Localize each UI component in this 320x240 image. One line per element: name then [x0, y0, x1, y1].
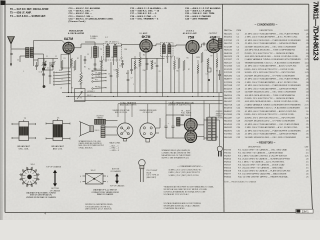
svg-text:OF SOCKET: OF SOCKET: [143, 112, 154, 114]
tone capacitor C6: [110, 76, 113, 77]
svg-text:R3: R3: [80, 97, 82, 99]
svg-text:C16: C16: [120, 57, 123, 59]
svg-text:C19 — OSC. TRIMMER — 5: C19 — OSC. TRIMMER — 5: [130, 18, 159, 20]
svg-text:TRIMMER ASSEMBLY 456 K.C. I.F.: TRIMMER ASSEMBLY 456 K.C. I.F. ALIGNING …: [245, 61, 301, 64]
svg-text:C1: C1: [47, 67, 49, 69]
svg-text:TOP OF CHASSIS: TOP OF CHASSIS: [110, 185, 125, 188]
switch connection box: [86, 174, 104, 185]
trimmer blob on gang C1: [44, 63, 47, 66]
svg-text:9C87821: 9C87821: [224, 134, 233, 136]
svg-text:.02 MFD. 600 V. MOULDED — PLAT: .02 MFD. 600 V. MOULDED — PLATE BUFFER C…: [245, 39, 302, 42]
svg-text:NEGATIVE LEG OF THE POWER: NEGATIVE LEG OF THE POWER: [162, 154, 191, 157]
padder capacitor C5: [35, 66, 38, 67]
wave switch section S1: [53, 72, 55, 74]
wire gang frame: [30, 54, 44, 88]
svg-text:C4: C4: [17, 60, 19, 62]
tuning gang capacitor C1: [42, 63, 45, 64]
svg-text:.1 MFD. 200 V. TUBULAR PAPER —: .1 MFD. 200 V. TUBULAR PAPER — A.V.C. FI…: [245, 36, 299, 39]
svg-text:9C87881: 9C87881: [224, 92, 233, 94]
output transformer primary: [218, 39, 222, 49]
screen resistor R4: [139, 57, 141, 66]
junction dots on buses: [71, 92, 72, 93]
IF grid resistor R13: [117, 68, 119, 77]
svg-text:C18 — 600 K.C. PAD — 5: C18 — 600 K.C. PAD — 5: [130, 15, 157, 18]
svg-text:CONNECTED AS CHOKE IN THE: CONNECTED AS CHOKE IN THE: [162, 151, 192, 154]
svg-text:S1: S1: [59, 70, 61, 72]
svg-text:75M: 75M: [188, 35, 195, 39]
tone network resistor R15: [197, 64, 199, 73]
svg-text:8B14926: 8B14926: [224, 108, 233, 110]
svg-text:9R5741: 9R5741: [224, 153, 232, 155]
svg-text:VOLTAGE AT 117.5 VOLTS A.C: VOLTAGE AT 117.5 VOLTS A.C.: [164, 193, 190, 196]
svg-text:END OF PLUG: END OF PLUG: [115, 112, 128, 114]
svg-text:9B77448: 9B77448: [224, 85, 233, 87]
paper grain: [0, 0, 1, 1]
svg-text:.05: .05: [60, 88, 62, 90]
svg-text:OF CHASSIS: OF CHASSIS: [110, 170, 121, 173]
filter capacitor C20: [165, 115, 167, 138]
svg-text:9C87559: 9C87559: [224, 72, 233, 74]
svg-text:9A51323: 9A51323: [224, 55, 233, 58]
svg-text:2 GANG VARIABLE TUNING CONDENS: 2 GANG VARIABLE TUNING CONDENSER WITH TR…: [245, 103, 302, 106]
svg-text:23M 1: 23M 1: [302, 210, 310, 213]
svg-text:C10 — 600 K.C. R.F. ALIGNING: C10 — 600 K.C. R.F. ALIGNING: [69, 7, 101, 10]
tuning gang capacitor C2: [51, 63, 54, 64]
svg-text:POL.: POL.: [95, 79, 99, 81]
page number box: [296, 209, 313, 213]
svg-text:7: 7: [107, 182, 108, 184]
coupling capacitor C12: [121, 64, 124, 65]
svg-text:R9: R9: [211, 56, 213, 58]
svg-text:T7: T7: [166, 58, 168, 60]
screen bypass capacitor C8: [156, 66, 159, 67]
svg-text:OF ALL MODELS.: OF ALL MODELS.: [79, 146, 94, 149]
svg-text:(GREEN) 1: (GREEN) 1: [87, 91, 95, 93]
svg-text:R14: R14: [177, 58, 180, 60]
svg-text:C7: C7: [131, 78, 133, 80]
wire V1 plate to IF1: [74, 44, 103, 48]
trimmer capacitor C25: [42, 68, 45, 71]
svg-text:250 MMF. MICA MOULDED — I.F. F: 250 MMF. MICA MOULDED — I.F. FIXED CONDE…: [245, 120, 296, 123]
svg-text:9R7227: 9R7227: [224, 165, 232, 167]
svg-text:9A95532: 9A95532: [224, 49, 233, 52]
output grid resistor R18: [216, 58, 218, 67]
wire V2 cathode: [145, 52, 147, 93]
diode load resistor R6: [178, 58, 180, 68]
svg-text:R 4. 25,000 OHM 1 W. CARBON —: R 4. 25,000 OHM 1 W. CARBON — SCREEN DRO…: [238, 158, 290, 161]
svg-text:9R8428: 9R8428: [224, 171, 232, 173]
svg-text:9A38130: 9A38130: [224, 52, 233, 55]
svg-text:T2: T2: [100, 49, 102, 51]
svg-text:6K7M: 6K7M: [142, 35, 151, 39]
tone filter box: [208, 68, 212, 72]
svg-text:25 MFD. 25 V. ELECTROLYTIC — C: 25 MFD. 25 V. ELECTROLYTIC — CATHODE BYP…: [245, 52, 295, 55]
svg-text:C14 — 456 K.C. I.F. (2ND) ALIG: C14 — 456 K.C. I.F. (2ND) ALIGNING COND.: [69, 17, 114, 20]
cathode resistor R2: [74, 60, 76, 70]
svg-text:.0001 MFD. MICA MOULDED — DIOD: .0001 MFD. MICA MOULDED — DIODE COUPLING…: [245, 100, 299, 103]
wave switch section S2: [92, 70, 94, 72]
svg-text:.02 MFD. 600 V. MOULDED — PLAT: .02 MFD. 600 V. MOULDED — PLATE BUFFER C…: [245, 129, 302, 132]
parts table left border: [223, 4, 225, 212]
svg-text:C11: C11: [98, 74, 101, 76]
tone condenser C19: [218, 75, 221, 76]
svg-text:(BAYONET): (BAYONET): [147, 176, 157, 179]
svg-text:5: 5: [80, 182, 81, 184]
cathode bias resistor R9: [207, 58, 209, 67]
svg-text:.1 MFD. 200 V. TUBULAR PAPER —: .1 MFD. 200 V. TUBULAR PAPER — A.V.C. FI…: [245, 81, 299, 84]
svg-text:R6: R6: [187, 58, 189, 60]
trimmer caps on IF1: [107, 43, 109, 46]
svg-text:C8: C8: [154, 63, 156, 65]
grid leak resistor R8: [201, 52, 203, 62]
svg-text:C6: C6: [108, 74, 110, 76]
svg-text:R 9. 150 OHM TAPPED CANDOHM —: R 9. 150 OHM TAPPED CANDOHM — BIAS DIVID…: [238, 173, 287, 176]
svg-text:MODULATOR: MODULATOR: [69, 29, 83, 32]
svg-text:PART No.: PART No.: [224, 29, 233, 32]
grid resistor R1: [61, 60, 63, 70]
oscillator shield box: [61, 55, 71, 69]
svg-text:C15 — 456 K.C. I.F. ALIGNING: C15 — 456 K.C. I.F. ALIGNING — 25: [130, 7, 167, 10]
connector wires to lower sections: [118, 104, 148, 123]
svg-text:1-7: 1-7: [105, 37, 108, 39]
wire IF1 secondary to V2 grid: [117, 43, 143, 46]
T1 terminal lugs: [46, 124, 70, 139]
svg-text:R4: R4: [143, 55, 145, 57]
wire V3 plate coupling: [199, 44, 203, 47]
svg-text:R6: R6: [177, 71, 179, 73]
svg-text:9D12303: 9D12303: [224, 66, 233, 68]
filter capacitor C21: [172, 115, 174, 138]
svg-text:AND DIAL LIGHTS: AND DIAL LIGHTS: [120, 104, 137, 107]
svg-text:DESCRIPTION: DESCRIPTION: [260, 30, 274, 32]
pilot light bulb: [139, 160, 146, 167]
svg-text:8C41649: 8C41649: [224, 114, 233, 116]
svg-text:9C87617: 9C87617: [224, 59, 233, 61]
svg-text:9A51467: 9A51467: [224, 100, 233, 103]
svg-text:R9: R9: [216, 71, 218, 73]
svg-text:9R2307: 9R2307: [224, 156, 232, 158]
wire power section: [166, 115, 204, 138]
speaker voice coil: [90, 126, 94, 132]
wire volume control: [80, 55, 82, 89]
svg-text:UME CONTROL (25 CY. MODELS): UME CONTROL (25 CY. MODELS): [85, 209, 112, 211]
svg-text:.05 MFD. 400 V. TUBULAR PAPER: .05 MFD. 400 V. TUBULAR PAPER — OSC. PLA…: [245, 78, 300, 81]
mica capacitor C26: [49, 76, 52, 77]
svg-text:8 MFD. 450 V. DRY ELECTROLYTIC: 8 MFD. 450 V. DRY ELECTROLYTIC — FILTER …: [245, 114, 295, 116]
svg-text:110 MMF. MICA MOULDED — OSC. G: 110 MMF. MICA MOULDED — OSC. GRID CONDEN…: [245, 136, 297, 139]
screen bus wire: [75, 100, 223, 102]
B+ bus wire: [62, 92, 223, 94]
svg-text:R10. 50 OHM CENTRE TAPPED — HE: R10. 50 OHM CENTRE TAPPED — HEATER HUM B…: [238, 176, 289, 179]
wire V4 plate to output transformer: [214, 37, 221, 40]
border frame right (bowed scan edge): [309, 4, 313, 212]
wire IF2 to V3: [171, 45, 187, 46]
svg-text:.006 MFD. MICA MOULDED — TONE: .006 MFD. MICA MOULDED — TONE COMPENSATI…: [245, 94, 296, 97]
svg-text:9A51487: 9A51487: [224, 116, 233, 119]
svg-text:9D12189: 9D12189: [224, 46, 233, 48]
osc grid capacitor C3: [84, 60, 87, 61]
rectifier tube V5 (bottom): [185, 131, 197, 143]
osc tracking resistor R16: [101, 60, 103, 68]
speaker cone: [81, 122, 91, 136]
svg-text:8B14259: 8B14259: [224, 88, 233, 90]
svg-text:9A51665: 9A51665: [224, 120, 233, 123]
svg-text:R1: R1: [64, 58, 66, 60]
svg-text:TRIMMER ASSEMBLY 456 K.C. I.F.: TRIMMER ASSEMBLY 456 K.C. I.F. ALIGNING …: [245, 107, 301, 110]
svg-text:C21 — 456 K.C. I.F. (2ND): C21 — 456 K.C. I.F. (2ND): [185, 10, 211, 13]
wire gang top: [34, 59, 59, 67]
wire V1 cathode down: [68, 53, 70, 92]
padder capacitor C11: [94, 69, 97, 70]
svg-text:R5: R5: [84, 67, 86, 69]
speaker field coil: [101, 126, 105, 138]
svg-text:R7: R7: [188, 69, 190, 71]
svg-text:9A38847: 9A38847: [224, 110, 233, 113]
antenna series capacitor C9: [10, 53, 12, 56]
heater bus wire: [118, 103, 223, 105]
svg-text:R 8. 10,000 OHM 1 W. CARBON —: R 8. 10,000 OHM 1 W. CARBON — PLATE DECO…: [238, 170, 291, 173]
svg-text:4: 4: [80, 176, 81, 178]
svg-text:9A51489: 9A51489: [224, 97, 233, 100]
svg-text:1ST. I.F. 456 K.C.: 1ST. I.F. 456 K.C.: [105, 42, 120, 44]
svg-text:MALE CONN.: MALE CONN.: [110, 141, 121, 144]
wire V4 cathode: [213, 53, 215, 93]
svg-text:I.F. AMP.: I.F. AMP.: [139, 32, 147, 35]
svg-text:9R6977: 9R6977: [224, 174, 232, 176]
svg-text:16 MFD. 475 V. DRY ELECTROLYTI: 16 MFD. 475 V. DRY ELECTROLYTIC — INPUT …: [245, 117, 296, 119]
svg-text:NOTE — PRICES SUBJECT TO CHANG: NOTE — PRICES SUBJECT TO CHANGE: [224, 181, 257, 184]
svg-text:9C87242: 9C87242: [224, 40, 233, 42]
svg-text:2 GANG VARIABLE TUNING CONDENS: 2 GANG VARIABLE TUNING CONDENSER WITH TR…: [245, 58, 302, 61]
svg-text:9A63691: 9A63691: [224, 129, 233, 132]
svg-text:∼ CONDENSERS ∼: ∼ CONDENSERS ∼: [254, 24, 278, 27]
svg-text:2.3-7MC: 2.3-7MC: [95, 76, 102, 78]
coupling capacitor C18: [204, 43, 205, 46]
volume control R3: [80, 72, 82, 84]
wire output transformer return: [220, 49, 222, 93]
svg-text:C3: C3: [87, 54, 89, 56]
svg-text:9A95384: 9A95384: [224, 74, 233, 77]
svg-text:(BLK) 2: (BLK) 2: [87, 95, 93, 97]
svg-text:.05 MFD. 400 V. TUBULAR PAPER: .05 MFD. 400 V. TUBULAR PAPER — OSC. PLA…: [245, 32, 300, 35]
svg-text:110 MMF. MICA MOULDED — OSC. G: 110 MMF. MICA MOULDED — OSC. GRID CONDEN…: [245, 91, 297, 94]
antenna: [8, 37, 15, 49]
svg-text:DESCRIPTION: DESCRIPTION: [248, 146, 261, 148]
svg-text:9R3664: 9R3664: [224, 177, 232, 179]
svg-text:8B14350: 8B14350: [224, 37, 233, 39]
trimmer blob on gang C2: [52, 65, 54, 67]
switch orientation arrow: [115, 173, 119, 184]
scan blemish top-left corner: [1, 1, 6, 6]
IF cathode resistor R17: [134, 60, 136, 69]
svg-text:9A51792: 9A51792: [224, 42, 233, 45]
svg-text:250 MMF. MICA MOULDED — I.F. F: 250 MMF. MICA MOULDED — I.F. FIXED CONDE…: [245, 74, 296, 77]
wire V1 grid: [62, 41, 65, 44]
speaker socket diagram: [140, 123, 156, 139]
svg-text:VIEWED FROM REAR OF CHASSI: VIEWED FROM REAR OF CHASSIS: [26, 196, 57, 199]
svg-text:9D12529: 9D12529: [224, 69, 233, 71]
svg-text:550-1500KC: 550-1500KC: [95, 69, 105, 71]
svg-text:C24 — ANT. TRIMMER: C24 — ANT. TRIMMER: [185, 17, 208, 20]
svg-text:C5: C5: [39, 72, 41, 74]
AVC line capacitor C7: [127, 80, 130, 81]
svg-text:25 MFD. 25 V. ELECTROLYTIC — C: 25 MFD. 25 V. ELECTROLYTIC — CATHODE BYP…: [245, 97, 295, 100]
svg-text:& OSCILLATOR: & OSCILLATOR: [68, 32, 85, 35]
svg-text:S2: S2: [88, 69, 90, 71]
svg-text:41M: 41M: [210, 36, 217, 40]
svg-text:.0001 MFD. MICA MOULDED — DIOD: .0001 MFD. MICA MOULDED — DIODE COUPLING…: [245, 55, 299, 58]
svg-text:6: 6: [107, 176, 108, 178]
svg-text:8 MFD. 450 V. DRY ELECTROLYTIC: 8 MFD. 450 V. DRY ELECTROLYTIC — FILTER …: [245, 69, 295, 71]
IF transformer 2: [161, 43, 174, 57]
svg-text:14 MFD. | 25 V. | WET |: 14 MFD. | 25 V. | WET | ON 25 CYCLE: [169, 175, 200, 177]
oscillator coil T2: [94, 47, 98, 58]
chassis orientation arrow: [53, 170, 57, 187]
wire speaker to plug: [105, 121, 118, 136]
wire socket leads: [156, 118, 160, 133]
svg-text:6A7M: 6A7M: [64, 37, 73, 41]
svg-text:110 MMF. MICA MOULDED — OSC. G: 110 MMF. MICA MOULDED — OSC. GRID CONDEN…: [245, 45, 297, 48]
svg-text:7M611—7D-M-8612-3: 7M611—7D-M-8612-3: [311, 1, 318, 61]
svg-text:CONTROL: CONTROL: [216, 118, 224, 120]
svg-text:C2: C2: [55, 56, 57, 58]
svg-text:REAR OF CHASSIS: REAR OF CHASSIS: [97, 193, 114, 196]
svg-text:.1 MFD. 200 V. TUBULAR PAPER —: .1 MFD. 200 V. TUBULAR PAPER — A.V.C. FI…: [245, 126, 299, 129]
svg-text:.006 MFD. MICA MOULDED — TONE: .006 MFD. MICA MOULDED — TONE COMPENSATI…: [245, 49, 296, 52]
svg-text:R2: R2: [77, 58, 79, 60]
svg-text:T4 — 6A7-6.D.6 — SUPER HET: T4 — 6A7-6.D.6 — SUPER HET.: [10, 15, 46, 18]
AVC capacitor C15: [130, 70, 133, 71]
svg-text:ANT. COIL: ANT. COIL: [53, 147, 63, 150]
antenna lead arrow: [10, 64, 12, 67]
wire osc coil: [85, 42, 95, 63]
volume control box: [75, 89, 86, 102]
svg-text:TOP OF CHASSIS: TOP OF CHASSIS: [46, 165, 62, 168]
svg-text:C1: C1: [46, 56, 48, 58]
broadcast osc coil T2: [19, 122, 29, 141]
svg-text:.01 MFD. 400 V. TUBULAR PAPER: .01 MFD. 400 V. TUBULAR PAPER — AUDIO CO…: [245, 65, 297, 68]
wire gang lower blob: [43, 85, 46, 88]
svg-text:9A51146: 9A51146: [224, 136, 233, 139]
svg-text:C18: C18: [205, 50, 208, 52]
svg-text:— GRN — 3: — GRN — 3: [110, 150, 120, 152]
svg-text:R2: R2: [73, 67, 75, 69]
svg-text:(Trimmer Cond.): (Trimmer Cond.): [69, 21, 86, 23]
padder capacitor C10: [94, 64, 97, 65]
svg-text:.05 MFD. 400 V. TUBULAR PAPER: .05 MFD. 400 V. TUBULAR PAPER — OSC. PLA…: [245, 123, 300, 126]
svg-text:COND.: COND.: [90, 38, 97, 40]
svg-text:SUPPLY. SEE SPEAKER PLUG: SUPPLY. SEE SPEAKER PLUG.: [162, 157, 190, 160]
wire V2 plate to IF2: [152, 44, 160, 46]
svg-text:9R2654: 9R2654: [224, 162, 232, 164]
wire T1 secondary to grid bus: [34, 41, 63, 50]
wire gang bottom to ground bus: [44, 64, 53, 70]
rectifier tube V5 (top): [184, 119, 197, 132]
svg-text:C23 — 600 K.C. PADDER: C23 — 600 K.C. PADDER: [185, 15, 211, 18]
svg-text:9C22814: 9C22814: [224, 82, 233, 84]
plate resistor R14: [174, 60, 176, 69]
antenna coil T1: [26, 48, 30, 58]
svg-text:C20 — 456 K.C. I.F. 1ST ALIGNI: C20 — 456 K.C. I.F. 1ST ALIGNING: [185, 7, 221, 10]
svg-text:9A63204: 9A63204: [224, 94, 233, 97]
svg-text:9A51125: 9A51125: [224, 32, 233, 35]
svg-text:OSC. COIL: OSC. COIL: [19, 148, 30, 150]
svg-text:.02 MFD. 600 V. MOULDED — PLAT: .02 MFD. 600 V. MOULDED — PLATE BUFFER C…: [245, 84, 302, 87]
T2 terminal lugs: [12, 124, 36, 138]
svg-text:C8: C8: [159, 71, 161, 73]
svg-text:T2: T2: [91, 58, 93, 60]
bus junction dots: [68, 96, 69, 97]
svg-text:R 3. 2 MEG. VOLUME CONTROL & O: R 3. 2 MEG. VOLUME CONTROL & ON-OFF SWIT…: [238, 156, 287, 158]
AVC resistor R7: [183, 60, 185, 70]
svg-text:9R4814: 9R4814: [224, 159, 232, 161]
decoupling resistor R5: [151, 60, 153, 69]
filter choke L1: [177, 118, 181, 127]
bypass capacitor C14: [146, 64, 149, 65]
speaker plug diagram: [117, 123, 133, 139]
svg-text:OTHERWISE INDICATED.: OTHERWISE INDICATED.: [164, 207, 186, 210]
svg-text:C18: C18: [206, 74, 209, 76]
wire V3 cathode: [192, 54, 194, 93]
svg-text:C14: C14: [150, 61, 153, 63]
svg-text:R13: R13: [120, 66, 123, 68]
svg-text:9R5554: 9R5554: [224, 168, 232, 170]
broadcast ant coil T1: [53, 121, 63, 141]
wire antenna lead down: [10, 48, 12, 65]
svg-text:ITEM: ITEM: [237, 30, 242, 32]
svg-text:9A95127: 9A95127: [224, 61, 233, 64]
svg-text:LIGHTS OF 41M PILOT 1: LIGHTS OF 41M PILOT 1: [168, 105, 190, 107]
svg-text:16 MFD. 475 V. DRY ELECTROLYTI: 16 MFD. 475 V. DRY ELECTROLYTIC — INPUT …: [245, 72, 296, 74]
svg-text:T7: T7: [171, 57, 173, 59]
wire T1 primary to antenna lead: [11, 49, 26, 62]
svg-text:9A63718: 9A63718: [224, 103, 233, 106]
automatic tuning switch diagram: [22, 169, 37, 184]
AC plug: [216, 120, 220, 147]
svg-text:— CONDENSER LIST BOX —: — CONDENSER LIST BOX —: [177, 166, 203, 168]
power transformer T5: [208, 117, 212, 140]
svg-text:R3: R3: [71, 88, 73, 90]
svg-text:.25 MFD. 200 V. TUBULAR PAPER: .25 MFD. 200 V. TUBULAR PAPER — CATHODE …: [245, 133, 298, 136]
svg-text:.05: .05: [111, 57, 113, 59]
svg-text:.25 MFD. 200 V. TUBULAR PAPER: .25 MFD. 200 V. TUBULAR PAPER — CATHODE …: [245, 87, 298, 90]
svg-text:.01 MFD. 400 V. TUBULAR PAPER: .01 MFD. 400 V. TUBULAR PAPER — AUDIO CO…: [245, 110, 297, 113]
svg-text:.1: .1: [23, 71, 24, 73]
svg-text:∼ RESISTORS ∼: ∼ RESISTORS ∼: [256, 142, 275, 145]
ground bus wire: [66, 95, 223, 97]
svg-text:PHONO: PHONO: [95, 86, 101, 88]
grid resistor R12: [71, 58, 73, 66]
IF shield wire: [132, 58, 165, 66]
svg-text:8B14949: 8B14949: [224, 124, 233, 126]
svg-text:9A38877: 9A38877: [224, 78, 233, 81]
svg-text:9R4733: 9R4733: [224, 150, 232, 152]
svg-text:.25 MFD. 200 V. TUBULAR PAPER: .25 MFD. 200 V. TUBULAR PAPER — CATHODE …: [245, 42, 298, 45]
svg-text:9A95982: 9A95982: [224, 126, 233, 129]
svg-text:SPEAKER FIELD (450 OHMS) IS: SPEAKER FIELD (450 OHMS) IS: [162, 149, 191, 152]
